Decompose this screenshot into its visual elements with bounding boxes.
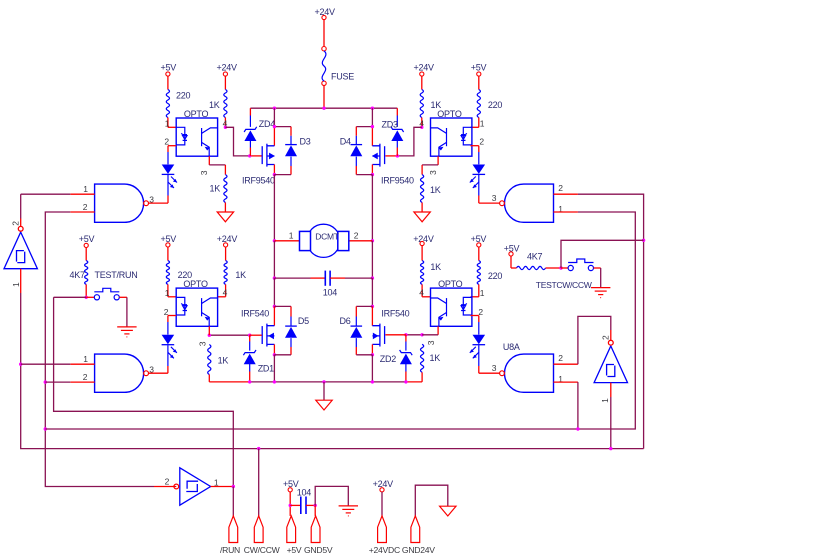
wire <box>209 381 249 383</box>
svg-text:1: 1 <box>165 118 170 128</box>
svg-text:1: 1 <box>289 230 294 240</box>
junction <box>371 239 374 242</box>
lead <box>249 342 251 351</box>
wire <box>371 278 373 306</box>
wire <box>396 148 398 156</box>
svg-text:OPTO: OPTO <box>183 279 208 289</box>
LED lead <box>167 322 169 335</box>
junction <box>322 380 325 383</box>
wire <box>224 203 226 213</box>
resistor 1K (gate pulldown right) <box>421 344 424 372</box>
wire +24V rail <box>250 107 397 109</box>
wire <box>355 166 357 175</box>
wire GND5V to earth <box>315 486 348 505</box>
svg-text:2: 2 <box>558 183 563 193</box>
svg-text:3: 3 <box>198 341 208 346</box>
resistor 1K (pull-up top-left) <box>224 90 227 118</box>
wire D6 bottom <box>356 354 372 356</box>
wire <box>249 372 251 382</box>
wire <box>167 247 169 261</box>
wire <box>345 277 372 279</box>
lead <box>355 317 357 326</box>
wire bus CW/CCW <box>21 293 644 449</box>
wire <box>471 296 479 298</box>
svg-text:ZD4: ZD4 <box>259 119 275 129</box>
junction <box>248 154 251 157</box>
ground arrow (GND24V) <box>440 506 456 516</box>
power terminal +24V right <box>420 72 424 76</box>
junction <box>404 333 407 336</box>
wire <box>274 277 310 279</box>
wire <box>314 505 316 516</box>
svg-text:DCMT: DCMT <box>315 232 339 242</box>
power terminal +5V TEST/RUN <box>84 243 88 247</box>
junction <box>642 239 645 242</box>
wire opto3 pin3 <box>208 326 210 335</box>
svg-text:1: 1 <box>11 282 21 287</box>
LED D1 (top-left) <box>162 165 177 189</box>
LED lead <box>167 345 169 366</box>
wire <box>371 306 373 325</box>
MOSFET Q1 IRF9540 (top-left) <box>262 144 274 167</box>
wire <box>479 202 500 204</box>
resistor 1K (emitter top-left) <box>224 175 227 203</box>
wire <box>290 504 301 506</box>
wire <box>167 284 169 296</box>
connector /RUN <box>229 516 238 543</box>
resistor 1K (gate pulldown left) <box>208 345 211 375</box>
junction <box>371 125 374 128</box>
junction <box>232 485 235 488</box>
junction <box>576 427 579 430</box>
connector +5V <box>287 516 296 543</box>
resistor 220 (R top-left) <box>166 90 169 118</box>
wire <box>600 268 602 287</box>
wire <box>273 278 275 306</box>
wire <box>323 382 325 400</box>
junction <box>248 380 251 383</box>
motor DCMT <box>300 224 349 257</box>
NAND gate U8A (bottom-right, mirrored) <box>500 354 554 392</box>
wire <box>554 211 578 213</box>
wire <box>371 175 373 241</box>
lead <box>396 141 398 148</box>
wire <box>330 277 345 279</box>
wire <box>371 344 373 354</box>
svg-text:FUSE: FUSE <box>331 72 354 82</box>
svg-text:3: 3 <box>492 363 497 373</box>
schmitt inverter U11 (bottom-right) <box>594 340 627 382</box>
ground arrow (top-left) <box>217 212 233 222</box>
wire <box>554 381 578 383</box>
wire TEST/RUN to /RUN <box>54 297 234 486</box>
wire pin4 to gate right <box>397 127 421 156</box>
power terminal +5V TESTCW <box>509 252 513 256</box>
earth ground (TEST/RUN) <box>117 327 136 337</box>
wire U6A pin1 <box>21 363 71 365</box>
svg-text:4: 4 <box>419 287 424 297</box>
wire <box>20 194 22 218</box>
LED lead <box>478 345 480 366</box>
LED lead <box>478 152 480 164</box>
LED lead <box>478 322 480 335</box>
wire <box>421 165 423 175</box>
svg-text:2: 2 <box>479 137 484 147</box>
pushbutton switch TESTCW/CCW <box>568 259 593 271</box>
ground arrow (bridge) <box>316 400 332 410</box>
wire <box>385 334 406 336</box>
lead <box>355 338 357 347</box>
wire <box>250 334 262 336</box>
wire <box>273 241 275 278</box>
power terminal +5V row2 left <box>166 243 170 247</box>
svg-text:ZD2: ZD2 <box>380 354 396 364</box>
wire <box>478 118 480 128</box>
resistor 1K (emitter top-right) <box>421 175 424 203</box>
lead <box>405 342 407 351</box>
wire <box>273 306 275 325</box>
power terminal +24V row2 right <box>420 241 424 245</box>
power terminal +24V top <box>322 15 326 19</box>
wire <box>70 381 94 383</box>
wire to CW/CCW connector <box>258 449 260 516</box>
svg-text:1: 1 <box>83 184 88 194</box>
wire <box>290 347 292 355</box>
svg-text:2: 2 <box>10 221 20 226</box>
wire <box>610 383 612 397</box>
svg-text:+5V: +5V <box>161 63 177 73</box>
wire <box>510 256 512 268</box>
junction <box>273 305 276 308</box>
wire <box>225 284 227 296</box>
lead <box>355 136 357 145</box>
junction <box>371 380 374 383</box>
wire <box>421 76 423 89</box>
wire <box>273 344 275 354</box>
wire GND24V to ground <box>415 485 448 516</box>
wire U7A pin2 bus <box>578 194 644 448</box>
wire <box>471 126 479 128</box>
wire <box>20 269 22 293</box>
resistor 220 (R bottom-right) <box>477 261 480 285</box>
lead <box>396 116 398 127</box>
svg-text:1: 1 <box>83 354 88 364</box>
svg-text:104: 104 <box>297 488 312 498</box>
optocoupler U4 (bottom-right, mirrored) <box>431 288 472 326</box>
wire <box>149 202 168 204</box>
wire <box>290 166 292 175</box>
wire D4 top <box>356 126 372 128</box>
svg-text:1K: 1K <box>209 100 220 110</box>
wire D5 top <box>274 305 291 307</box>
svg-text:/RUN: /RUN <box>220 545 240 555</box>
junction <box>273 353 276 356</box>
diode D3 <box>285 145 297 157</box>
svg-text:IRF540: IRF540 <box>241 309 269 319</box>
wire <box>355 306 357 316</box>
svg-text:4K7: 4K7 <box>527 251 543 261</box>
svg-text:D5: D5 <box>298 316 309 326</box>
connector GND24V <box>411 516 420 543</box>
wire <box>371 355 373 382</box>
wire <box>273 165 275 175</box>
wire to U5A pin1 <box>21 193 71 195</box>
schmitt inverter U10 (bottom-left) <box>174 468 211 505</box>
wire <box>371 165 373 175</box>
junction <box>248 334 251 337</box>
wire <box>421 246 423 261</box>
wire <box>249 155 262 157</box>
wire <box>422 164 438 166</box>
capacitor C1 104 <box>325 271 330 286</box>
wire <box>371 127 373 146</box>
wire <box>478 146 480 152</box>
wire opto1 pin3 <box>208 156 210 165</box>
wire gate row left <box>209 334 249 336</box>
svg-text:+5V: +5V <box>287 545 302 555</box>
resistor 220 (R bottom-left) <box>166 261 169 285</box>
junction <box>273 239 276 242</box>
schmitt inverter U9 (left) <box>4 226 37 268</box>
resistor 220 (R top-right) <box>477 90 480 118</box>
wire motor 2 <box>348 240 372 242</box>
wire <box>249 148 251 156</box>
wire <box>405 335 407 342</box>
wire to /RUN connector <box>232 487 234 516</box>
wire <box>511 267 517 269</box>
svg-text:+24VDC: +24VDC <box>369 545 400 555</box>
junction <box>420 333 423 336</box>
svg-text:GND5V: GND5V <box>304 545 333 555</box>
wire <box>471 145 479 147</box>
wire opto4 pin3 <box>437 326 439 335</box>
svg-text:GND24V: GND24V <box>402 545 435 555</box>
wire D3 bottom <box>274 174 291 176</box>
wire <box>149 372 168 374</box>
wire <box>290 306 292 316</box>
wire <box>478 76 480 89</box>
junction <box>208 334 211 337</box>
junction <box>609 447 612 450</box>
svg-text:1: 1 <box>165 288 170 298</box>
wire <box>167 76 169 89</box>
junction <box>314 504 317 507</box>
wire <box>421 118 423 128</box>
LED lead <box>478 175 480 196</box>
wire <box>224 165 226 175</box>
optocoupler U3 (bottom-left) <box>176 288 217 326</box>
wire <box>479 372 500 374</box>
svg-text:IRF9540: IRF9540 <box>381 176 414 186</box>
junction <box>289 504 292 507</box>
wire <box>168 315 176 317</box>
wire D3 top <box>274 126 291 128</box>
LED lead <box>167 152 169 164</box>
junction <box>273 107 276 110</box>
svg-text:3: 3 <box>426 340 436 345</box>
resistor 4K7 (left) <box>85 261 88 285</box>
wire <box>167 366 169 373</box>
resistor 1K (pull-up bottom-left) <box>224 261 227 285</box>
wire <box>405 372 407 382</box>
wire motor 1 <box>274 240 299 242</box>
svg-text:2: 2 <box>558 353 563 363</box>
resistor 1K (pull-up bottom-right) <box>421 261 424 285</box>
wire <box>85 284 87 297</box>
wire pin4 to gate left <box>225 127 249 156</box>
svg-text:TESTCW/CCW: TESTCW/CCW <box>536 280 593 290</box>
NAND gate U6A (bottom-left) <box>95 354 149 392</box>
wire <box>224 76 226 89</box>
power terminal +5V right <box>477 72 481 76</box>
svg-text:1K: 1K <box>430 185 441 195</box>
wire <box>273 108 275 126</box>
zener diode ZD1 <box>243 350 256 364</box>
wire <box>126 297 128 326</box>
connector +24VDC <box>378 516 387 543</box>
wire <box>371 108 373 126</box>
wire <box>224 118 226 128</box>
svg-text:220: 220 <box>488 271 503 281</box>
wire <box>306 504 315 506</box>
junction <box>371 107 374 110</box>
svg-text:2: 2 <box>478 307 483 317</box>
wire <box>119 296 127 298</box>
wire <box>168 296 176 298</box>
svg-text:3: 3 <box>428 170 438 175</box>
junction <box>371 276 374 279</box>
svg-text:2: 2 <box>83 372 88 382</box>
junction <box>371 173 374 176</box>
svg-text:4: 4 <box>223 287 228 297</box>
svg-text:2: 2 <box>354 230 359 240</box>
wire <box>70 211 94 213</box>
LED D7 (bottom-left) <box>162 335 177 359</box>
lead <box>249 364 251 372</box>
wire <box>86 296 94 298</box>
wire <box>20 219 22 227</box>
wire <box>396 108 398 115</box>
wire <box>554 363 578 365</box>
svg-text:3: 3 <box>149 364 154 374</box>
wire ground rail <box>250 381 406 383</box>
wire <box>594 267 601 269</box>
MOSFET Q2 IRF9540 (top-right) <box>372 144 384 167</box>
junction <box>44 427 47 430</box>
wire <box>610 397 612 449</box>
wire <box>167 316 169 323</box>
power terminal +24V row2 left <box>224 243 228 247</box>
wire <box>167 196 169 204</box>
MOSFET Q3 IRF540 (bottom-left) <box>262 324 274 347</box>
wire <box>471 315 479 317</box>
wire <box>478 366 480 373</box>
junction <box>404 380 407 383</box>
power terminal +5V io <box>288 488 292 492</box>
svg-text:D6: D6 <box>340 316 351 326</box>
wire <box>218 296 226 298</box>
wire <box>273 175 275 241</box>
wire <box>273 355 275 382</box>
pushbutton switch TEST/RUN <box>94 288 119 300</box>
wire <box>211 486 234 488</box>
wire U5A pin2 bus <box>45 212 154 487</box>
wire <box>421 203 423 213</box>
lead <box>290 157 292 166</box>
svg-text:+24V: +24V <box>217 63 238 73</box>
junction <box>273 380 276 383</box>
svg-text:CW/CCW: CW/CCW <box>244 545 281 555</box>
wire <box>208 375 210 382</box>
wire <box>478 247 480 261</box>
wire <box>289 492 291 516</box>
svg-text:2: 2 <box>83 202 88 212</box>
LED D8 (bottom-right) <box>470 335 485 359</box>
fuse F1 <box>322 47 326 86</box>
connector CW/CCW <box>254 516 263 543</box>
MOSFET Q4 IRF540 (bottom-right) <box>372 324 384 347</box>
junction <box>273 125 276 128</box>
diode D5 <box>285 326 297 338</box>
wire <box>323 86 325 109</box>
wire D5 bottom <box>274 354 291 356</box>
svg-text:ZD1: ZD1 <box>258 364 274 374</box>
lead <box>290 136 292 145</box>
wire <box>385 155 397 157</box>
svg-text:3: 3 <box>199 170 209 175</box>
power terminal +5V row2 right <box>477 243 481 247</box>
svg-text:OPTO: OPTO <box>438 279 463 289</box>
svg-text:2: 2 <box>165 476 170 486</box>
optocoupler U2 (top-right, mirrored) <box>431 118 472 156</box>
zener diode ZD4 <box>244 127 257 141</box>
svg-text:2: 2 <box>600 335 610 340</box>
svg-text:TEST/RUN: TEST/RUN <box>95 270 138 280</box>
wire U6A pin2 <box>45 381 70 383</box>
lead <box>249 141 251 148</box>
wire U8A pin2 to inverter <box>578 316 611 364</box>
svg-text:D3: D3 <box>300 137 311 147</box>
svg-text:3: 3 <box>492 193 497 203</box>
svg-text:+24V: +24V <box>414 63 435 73</box>
junction <box>273 276 276 279</box>
junction <box>420 126 423 129</box>
svg-text:U8A: U8A <box>503 342 520 352</box>
svg-text:1K: 1K <box>218 356 229 366</box>
wire <box>249 335 251 341</box>
svg-text:IRF540: IRF540 <box>381 309 409 319</box>
svg-text:1: 1 <box>600 398 610 403</box>
wire <box>546 267 562 269</box>
lead <box>355 157 357 166</box>
wire <box>355 127 357 136</box>
junction <box>85 296 88 299</box>
junction <box>371 305 374 308</box>
earth ground (TESTCW/CCW) <box>591 288 610 298</box>
junction <box>224 126 227 129</box>
svg-text:D4: D4 <box>340 137 351 147</box>
lead <box>405 364 407 372</box>
svg-text:+24V: +24V <box>217 234 238 244</box>
wire bus to U7A pin1 <box>45 212 635 429</box>
junction <box>559 266 562 269</box>
wire <box>406 381 422 383</box>
lead <box>249 116 251 127</box>
LED D2 (top-right) <box>470 165 485 189</box>
wire <box>421 284 423 296</box>
svg-text:1K: 1K <box>235 270 246 280</box>
junction <box>44 380 47 383</box>
